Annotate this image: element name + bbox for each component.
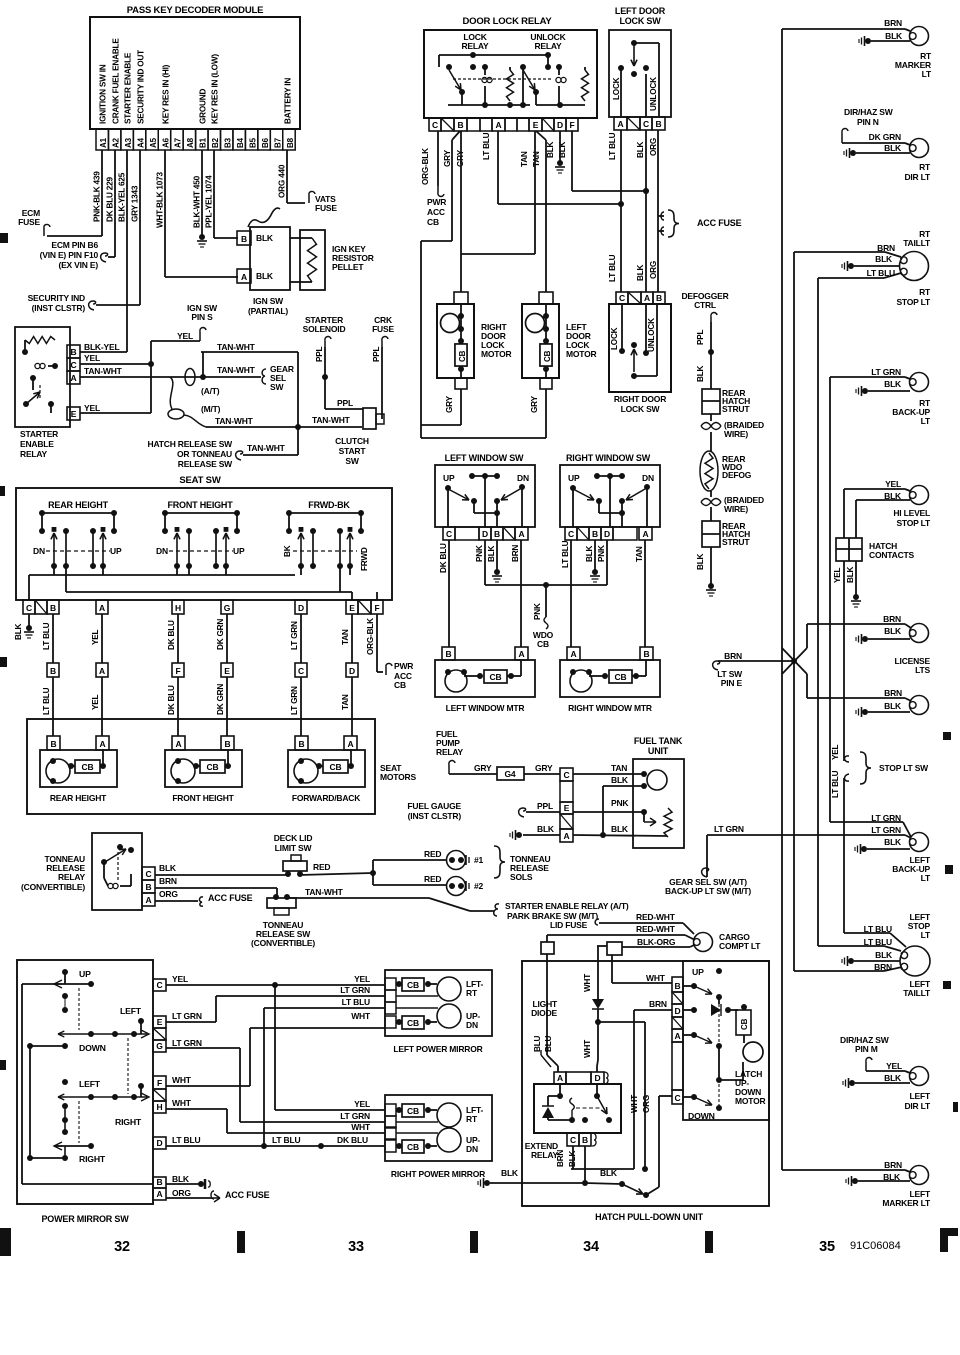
svg-text:B: B bbox=[494, 529, 500, 539]
svg-text:CB: CB bbox=[427, 217, 439, 227]
svg-text:BRN: BRN bbox=[556, 1150, 565, 1167]
svg-text:WHT: WHT bbox=[583, 1040, 592, 1058]
svg-text:LT GRN: LT GRN bbox=[290, 621, 299, 650]
svg-text:BLK: BLK bbox=[885, 31, 903, 41]
svg-text:E: E bbox=[349, 603, 355, 613]
svg-text:BLK: BLK bbox=[546, 141, 555, 158]
svg-text:BLK: BLK bbox=[884, 1073, 902, 1083]
svg-text:DK BLU: DK BLU bbox=[439, 543, 448, 573]
svg-text:RED-WHT: RED-WHT bbox=[636, 924, 676, 934]
svg-text:YEL: YEL bbox=[354, 1099, 370, 1109]
svg-text:F: F bbox=[375, 603, 380, 613]
svg-text:PIN E: PIN E bbox=[721, 678, 743, 688]
svg-text:CB: CB bbox=[458, 350, 467, 362]
svg-text:IGN SW: IGN SW bbox=[253, 296, 284, 306]
svg-text:91C06084: 91C06084 bbox=[850, 1240, 901, 1252]
svg-text:LT BLU: LT BLU bbox=[561, 540, 570, 568]
svg-text:DN: DN bbox=[33, 546, 45, 556]
svg-text:C: C bbox=[298, 666, 304, 676]
svg-text:B: B bbox=[299, 739, 305, 749]
svg-text:YEL: YEL bbox=[886, 1061, 902, 1071]
svg-text:LT: LT bbox=[921, 873, 931, 883]
svg-text:YEL: YEL bbox=[885, 479, 901, 489]
svg-text:SW: SW bbox=[345, 456, 359, 466]
svg-text:BRN: BRN bbox=[724, 651, 742, 661]
svg-text:B: B bbox=[592, 529, 598, 539]
svg-text:YEL: YEL bbox=[354, 974, 370, 984]
svg-text:WIRE): WIRE) bbox=[724, 429, 748, 439]
svg-text:COMPT LT: COMPT LT bbox=[719, 941, 761, 951]
svg-text:ACC FUSE: ACC FUSE bbox=[225, 1190, 270, 1200]
svg-text:STARTER ENABLE RELAY (A/T): STARTER ENABLE RELAY (A/T) bbox=[505, 901, 629, 911]
svg-text:B5: B5 bbox=[248, 137, 257, 148]
svg-text:BLK: BLK bbox=[875, 950, 893, 960]
svg-text:C: C bbox=[619, 293, 625, 303]
svg-text:STRUT: STRUT bbox=[722, 404, 750, 414]
svg-text:E: E bbox=[71, 409, 77, 419]
svg-text:LOCK: LOCK bbox=[612, 77, 621, 100]
svg-text:LT GRN: LT GRN bbox=[871, 813, 901, 823]
svg-text:BLK: BLK bbox=[256, 233, 274, 243]
svg-text:BLK: BLK bbox=[585, 545, 594, 562]
svg-text:SOLS: SOLS bbox=[510, 872, 533, 882]
svg-text:BLK: BLK bbox=[256, 271, 274, 281]
svg-text:UNIT: UNIT bbox=[648, 746, 669, 756]
svg-text:PELLET: PELLET bbox=[332, 262, 364, 272]
svg-text:C: C bbox=[675, 1093, 681, 1103]
svg-text:DIR LT: DIR LT bbox=[904, 172, 931, 182]
svg-text:RT: RT bbox=[919, 287, 931, 297]
svg-text:GRY: GRY bbox=[445, 395, 454, 413]
svg-text:B: B bbox=[51, 739, 57, 749]
svg-text:A: A bbox=[100, 739, 106, 749]
svg-text:WHT: WHT bbox=[351, 1011, 371, 1021]
svg-text:PPL: PPL bbox=[537, 801, 553, 811]
svg-text:BLK: BLK bbox=[537, 824, 555, 834]
svg-text:SOLENOID: SOLENOID bbox=[303, 324, 346, 334]
svg-text:LT GRN: LT GRN bbox=[871, 825, 901, 835]
svg-text:A6: A6 bbox=[161, 137, 170, 148]
svg-text:SECURITY IND: SECURITY IND bbox=[28, 293, 85, 303]
svg-text:ORG: ORG bbox=[642, 1095, 651, 1113]
svg-text:FRONT HEIGHT: FRONT HEIGHT bbox=[172, 793, 234, 803]
svg-text:(INST CLSTR): (INST CLSTR) bbox=[408, 811, 462, 821]
svg-text:B: B bbox=[675, 981, 681, 991]
svg-text:C: C bbox=[157, 980, 163, 990]
svg-text:CB: CB bbox=[207, 762, 219, 772]
svg-text:STOP LT: STOP LT bbox=[896, 297, 931, 307]
svg-text:MOTOR: MOTOR bbox=[566, 349, 597, 359]
svg-text:LOCK SW: LOCK SW bbox=[621, 404, 661, 414]
svg-text:WHT: WHT bbox=[351, 1122, 371, 1132]
svg-text:E: E bbox=[224, 666, 230, 676]
svg-text:B8: B8 bbox=[286, 137, 295, 148]
svg-text:PNK: PNK bbox=[533, 603, 542, 620]
svg-text:TAN: TAN bbox=[635, 546, 644, 562]
svg-text:RELAY: RELAY bbox=[531, 1150, 559, 1160]
svg-text:(CONVERTIBLE): (CONVERTIBLE) bbox=[21, 882, 85, 892]
svg-text:DIODE: DIODE bbox=[531, 1008, 557, 1018]
svg-text:ORG-BLK: ORG-BLK bbox=[366, 618, 375, 655]
svg-text:B7: B7 bbox=[273, 137, 282, 148]
svg-text:C: C bbox=[568, 529, 574, 539]
svg-text:CONTACTS: CONTACTS bbox=[869, 550, 915, 560]
svg-text:A: A bbox=[348, 739, 354, 749]
svg-text:TAN-WHT: TAN-WHT bbox=[215, 416, 254, 426]
svg-text:ORG: ORG bbox=[649, 261, 658, 279]
svg-text:DN: DN bbox=[642, 473, 654, 483]
svg-text:LT BLU: LT BLU bbox=[831, 770, 840, 798]
svg-text:RELEASE SW: RELEASE SW bbox=[178, 459, 233, 469]
svg-text:DK BLU: DK BLU bbox=[167, 620, 176, 650]
svg-text:DN: DN bbox=[466, 1144, 478, 1154]
svg-text:32: 32 bbox=[114, 1239, 130, 1255]
svg-text:LTS: LTS bbox=[915, 665, 930, 675]
svg-text:B: B bbox=[241, 234, 247, 244]
svg-text:YEL: YEL bbox=[833, 567, 842, 583]
svg-text:KEY RES IN (HI): KEY RES IN (HI) bbox=[162, 64, 171, 124]
svg-text:WHT: WHT bbox=[583, 974, 592, 992]
svg-text:CB: CB bbox=[615, 672, 627, 682]
svg-text:ORG: ORG bbox=[172, 1188, 191, 1198]
svg-text:B: B bbox=[582, 1135, 588, 1145]
svg-text:A: A bbox=[241, 272, 247, 282]
svg-text:RED: RED bbox=[424, 849, 441, 859]
svg-text:RT: RT bbox=[466, 1114, 478, 1124]
svg-text:A1: A1 bbox=[99, 137, 108, 148]
svg-text:BLK: BLK bbox=[600, 1168, 618, 1178]
svg-text:BLK: BLK bbox=[611, 824, 629, 834]
svg-text:LT: LT bbox=[921, 416, 931, 426]
svg-text:B: B bbox=[446, 649, 452, 659]
svg-text:STOP LT: STOP LT bbox=[896, 518, 931, 528]
svg-text:PPL: PPL bbox=[372, 346, 381, 362]
svg-text:LT BLU: LT BLU bbox=[864, 924, 892, 934]
svg-text:CB: CB bbox=[407, 1106, 419, 1116]
svg-text:STARTER: STARTER bbox=[20, 429, 58, 439]
svg-text:BLK: BLK bbox=[636, 141, 645, 158]
svg-text:(M/T): (M/T) bbox=[201, 404, 221, 414]
svg-text:B1: B1 bbox=[199, 137, 208, 148]
svg-text:F: F bbox=[570, 120, 575, 130]
svg-text:BLK: BLK bbox=[884, 379, 902, 389]
svg-text:SW: SW bbox=[270, 382, 284, 392]
svg-text:POWER MIRROR SW: POWER MIRROR SW bbox=[42, 1214, 130, 1224]
svg-text:BLK: BLK bbox=[884, 837, 902, 847]
svg-text:RELAY: RELAY bbox=[461, 41, 489, 51]
svg-text:DECK LID: DECK LID bbox=[274, 833, 313, 843]
svg-text:B: B bbox=[50, 603, 56, 613]
svg-text:BLK-YEL 625: BLK-YEL 625 bbox=[118, 172, 127, 222]
svg-text:CTRL: CTRL bbox=[694, 300, 716, 310]
svg-text:RIGHT POWER MIRROR: RIGHT POWER MIRROR bbox=[391, 1169, 485, 1179]
svg-text:UP: UP bbox=[692, 967, 704, 977]
svg-text:BK: BK bbox=[283, 545, 292, 557]
svg-text:GRY 1343: GRY 1343 bbox=[131, 185, 140, 222]
svg-text:B: B bbox=[50, 666, 56, 676]
svg-text:A: A bbox=[519, 649, 525, 659]
svg-text:GRY: GRY bbox=[530, 395, 539, 413]
svg-text:A: A bbox=[644, 293, 650, 303]
svg-text:ENABLE: ENABLE bbox=[20, 439, 54, 449]
svg-text:33: 33 bbox=[348, 1239, 364, 1255]
svg-text:LT GRN: LT GRN bbox=[172, 1011, 202, 1021]
svg-text:STOP LT SW: STOP LT SW bbox=[879, 763, 929, 773]
svg-text:C: C bbox=[26, 603, 32, 613]
svg-text:C: C bbox=[71, 360, 77, 370]
svg-text:FUSE: FUSE bbox=[315, 203, 337, 213]
svg-text:LEFT: LEFT bbox=[910, 1091, 931, 1101]
svg-text:PPL: PPL bbox=[696, 329, 705, 345]
svg-text:DK GRN: DK GRN bbox=[216, 619, 225, 650]
svg-text:MOTOR: MOTOR bbox=[735, 1096, 766, 1106]
svg-text:H: H bbox=[175, 603, 181, 613]
svg-text:(VIN E) PIN F10: (VIN E) PIN F10 bbox=[40, 250, 99, 260]
svg-text:E: E bbox=[157, 1017, 163, 1027]
svg-text:H: H bbox=[157, 1102, 163, 1112]
svg-text:B: B bbox=[656, 119, 662, 129]
svg-text:RED-WHT: RED-WHT bbox=[636, 912, 676, 922]
svg-text:#1: #1 bbox=[474, 855, 484, 865]
svg-text:CB: CB bbox=[394, 680, 406, 690]
svg-text:CB: CB bbox=[407, 980, 419, 990]
svg-text:C: C bbox=[432, 120, 438, 130]
svg-text:A: A bbox=[519, 529, 525, 539]
svg-text:ORG-BLK: ORG-BLK bbox=[421, 148, 430, 185]
svg-text:UP: UP bbox=[443, 473, 455, 483]
svg-text:TAN: TAN bbox=[341, 694, 350, 710]
svg-text:CB: CB bbox=[490, 672, 502, 682]
svg-text:WIRE): WIRE) bbox=[724, 504, 748, 514]
svg-text:BLK: BLK bbox=[846, 566, 855, 583]
svg-text:LT BLU: LT BLU bbox=[608, 132, 617, 160]
svg-text:UP: UP bbox=[79, 969, 91, 979]
svg-text:LT: LT bbox=[922, 69, 932, 79]
svg-text:B: B bbox=[71, 347, 77, 357]
svg-text:WHT: WHT bbox=[630, 1095, 639, 1113]
svg-text:LOCK: LOCK bbox=[610, 327, 619, 350]
svg-text:SECURITY IND OUT: SECURITY IND OUT bbox=[137, 50, 146, 124]
svg-text:TAN-WHT: TAN-WHT bbox=[305, 887, 344, 897]
svg-text:RELAY: RELAY bbox=[20, 449, 48, 459]
svg-text:D: D bbox=[349, 666, 355, 676]
svg-text:BRN: BRN bbox=[883, 614, 901, 624]
svg-text:TAN-WHT: TAN-WHT bbox=[312, 415, 351, 425]
svg-text:RELAY: RELAY bbox=[58, 872, 86, 882]
svg-text:LEFT: LEFT bbox=[79, 1079, 101, 1089]
svg-text:A: A bbox=[99, 603, 105, 613]
svg-text:BRN: BRN bbox=[159, 876, 177, 886]
svg-text:RIGHT WINDOW SW: RIGHT WINDOW SW bbox=[566, 453, 651, 463]
svg-text:BLK: BLK bbox=[884, 143, 902, 153]
svg-text:LEFT POWER MIRROR: LEFT POWER MIRROR bbox=[393, 1044, 482, 1054]
svg-text:(PARTIAL): (PARTIAL) bbox=[248, 306, 288, 316]
svg-text:A: A bbox=[71, 373, 77, 383]
svg-text:PPL: PPL bbox=[315, 346, 324, 362]
svg-text:LT GRN: LT GRN bbox=[340, 1111, 370, 1121]
svg-text:YEL: YEL bbox=[84, 403, 100, 413]
svg-text:B2: B2 bbox=[211, 137, 220, 148]
svg-text:D: D bbox=[557, 120, 563, 130]
svg-text:D: D bbox=[604, 529, 610, 539]
svg-text:BLU: BLU bbox=[533, 1035, 542, 1052]
svg-text:B: B bbox=[157, 1177, 163, 1187]
svg-text:BLK: BLK bbox=[611, 775, 629, 785]
svg-text:BRN: BRN bbox=[649, 999, 667, 1009]
svg-text:RT: RT bbox=[466, 988, 478, 998]
svg-text:LT BLU: LT BLU bbox=[482, 132, 491, 160]
svg-text:PIN S: PIN S bbox=[191, 312, 213, 322]
svg-text:TAN-WHT: TAN-WHT bbox=[217, 342, 256, 352]
svg-text:FUEL GAUGE: FUEL GAUGE bbox=[407, 801, 461, 811]
svg-text:PNK: PNK bbox=[611, 798, 629, 808]
svg-text:LT BLU: LT BLU bbox=[342, 997, 370, 1007]
svg-text:A: A bbox=[564, 831, 570, 841]
svg-text:BLK-YEL: BLK-YEL bbox=[84, 342, 119, 352]
svg-text:PIN M: PIN M bbox=[855, 1044, 878, 1054]
svg-text:LT BLU: LT BLU bbox=[608, 254, 617, 282]
svg-text:34: 34 bbox=[583, 1239, 599, 1255]
svg-text:E: E bbox=[533, 120, 539, 130]
svg-text:LIMIT SW: LIMIT SW bbox=[275, 843, 313, 853]
svg-text:UP: UP bbox=[110, 546, 122, 556]
svg-text:BLK: BLK bbox=[884, 701, 902, 711]
svg-text:LT GRN: LT GRN bbox=[340, 985, 370, 995]
svg-text:CB: CB bbox=[543, 350, 552, 362]
svg-text:BLK: BLK bbox=[172, 1174, 190, 1184]
svg-text:B: B bbox=[225, 739, 231, 749]
svg-text:YEL: YEL bbox=[91, 629, 100, 645]
svg-text:BLK: BLK bbox=[696, 365, 705, 382]
svg-text:LT BLU: LT BLU bbox=[42, 622, 51, 650]
svg-text:WHT: WHT bbox=[646, 973, 666, 983]
svg-text:DN: DN bbox=[466, 1020, 478, 1030]
svg-text:(INST CLSTR): (INST CLSTR) bbox=[32, 303, 86, 313]
svg-text:LT GRN: LT GRN bbox=[290, 686, 299, 715]
svg-text:HATCH RELEASE SW: HATCH RELEASE SW bbox=[148, 439, 234, 449]
svg-text:FRWD-BK: FRWD-BK bbox=[308, 500, 350, 510]
svg-text:#2: #2 bbox=[474, 881, 484, 891]
svg-text:DK BLU: DK BLU bbox=[167, 685, 176, 715]
svg-text:B4: B4 bbox=[236, 137, 245, 148]
svg-text:ORG: ORG bbox=[159, 889, 178, 899]
svg-text:RIGHT: RIGHT bbox=[79, 1154, 106, 1164]
svg-text:TAN-WHT: TAN-WHT bbox=[247, 443, 286, 453]
svg-text:DOWN: DOWN bbox=[79, 1043, 106, 1053]
svg-text:ACC FUSE: ACC FUSE bbox=[208, 893, 253, 903]
svg-text:LT GRN: LT GRN bbox=[172, 1038, 202, 1048]
svg-text:MOTOR: MOTOR bbox=[481, 349, 512, 359]
svg-text:B: B bbox=[146, 882, 152, 892]
svg-text:BLK: BLK bbox=[696, 553, 705, 570]
svg-text:BLK-WHT 450: BLK-WHT 450 bbox=[193, 175, 202, 228]
svg-text:C: C bbox=[643, 119, 649, 129]
svg-text:PPL: PPL bbox=[337, 398, 353, 408]
svg-text:FRONT HEIGHT: FRONT HEIGHT bbox=[167, 500, 233, 510]
svg-text:BRN: BRN bbox=[884, 18, 902, 28]
svg-text:YEL: YEL bbox=[91, 694, 100, 710]
svg-text:CB: CB bbox=[330, 762, 342, 772]
svg-text:TAN: TAN bbox=[341, 629, 350, 645]
svg-text:TAN-WHT: TAN-WHT bbox=[84, 366, 123, 376]
svg-text:UNLOCK: UNLOCK bbox=[647, 318, 656, 352]
svg-text:DOOR LOCK RELAY: DOOR LOCK RELAY bbox=[462, 16, 552, 27]
svg-text:SEAT SW: SEAT SW bbox=[179, 475, 220, 486]
svg-text:LT GRN: LT GRN bbox=[871, 367, 901, 377]
svg-text:HATCH PULL-DOWN UNIT: HATCH PULL-DOWN UNIT bbox=[595, 1212, 704, 1222]
svg-text:D: D bbox=[595, 1073, 601, 1083]
svg-text:BRN: BRN bbox=[884, 688, 902, 698]
svg-text:A: A bbox=[496, 120, 502, 130]
svg-text:TAN: TAN bbox=[532, 151, 541, 167]
svg-text:BLK-ORG: BLK-ORG bbox=[637, 937, 676, 947]
svg-text:MARKER LT: MARKER LT bbox=[882, 1198, 931, 1208]
svg-text:BLK: BLK bbox=[875, 254, 893, 264]
svg-text:LT BLU: LT BLU bbox=[867, 268, 895, 278]
svg-text:A4: A4 bbox=[136, 137, 145, 148]
svg-text:CLUTCH: CLUTCH bbox=[335, 436, 369, 446]
svg-text:RIGHT WINDOW MTR: RIGHT WINDOW MTR bbox=[568, 703, 652, 713]
svg-text:WHT: WHT bbox=[172, 1098, 192, 1108]
svg-text:B: B bbox=[458, 120, 464, 130]
svg-text:B6: B6 bbox=[261, 137, 270, 148]
svg-text:A: A bbox=[99, 666, 105, 676]
svg-text:A: A bbox=[643, 529, 649, 539]
svg-text:RELAY: RELAY bbox=[534, 41, 562, 51]
svg-text:BLK: BLK bbox=[14, 623, 23, 640]
svg-text:RIGHT DOOR: RIGHT DOOR bbox=[614, 394, 666, 404]
svg-text:LEFT: LEFT bbox=[120, 1006, 142, 1016]
svg-text:GRY: GRY bbox=[474, 763, 492, 773]
svg-text:BACK-UP LT SW (M/T): BACK-UP LT SW (M/T) bbox=[665, 886, 751, 896]
svg-text:C: C bbox=[564, 770, 570, 780]
svg-text:DEFOG: DEFOG bbox=[722, 470, 752, 480]
svg-text:RIGHT: RIGHT bbox=[115, 1117, 142, 1127]
svg-text:REAR HEIGHT: REAR HEIGHT bbox=[48, 500, 109, 510]
svg-text:START: START bbox=[339, 446, 367, 456]
svg-text:BRN: BRN bbox=[511, 545, 520, 562]
svg-text:RED: RED bbox=[424, 874, 441, 884]
svg-text:TAN: TAN bbox=[520, 151, 529, 167]
svg-text:A: A bbox=[176, 739, 182, 749]
svg-text:C: C bbox=[570, 1135, 576, 1145]
svg-text:BLK: BLK bbox=[884, 626, 902, 636]
svg-text:FORWARD/BACK: FORWARD/BACK bbox=[292, 793, 361, 803]
svg-text:GRY: GRY bbox=[443, 149, 452, 167]
svg-text:(CONVERTIBLE): (CONVERTIBLE) bbox=[251, 938, 315, 948]
svg-text:LT BLU: LT BLU bbox=[272, 1135, 300, 1145]
svg-text:BLU: BLU bbox=[544, 1035, 553, 1052]
svg-text:UNLOCK: UNLOCK bbox=[649, 77, 658, 111]
svg-text:LID FUSE: LID FUSE bbox=[550, 920, 588, 930]
svg-text:FRWD: FRWD bbox=[360, 547, 369, 571]
svg-text:HI LEVEL: HI LEVEL bbox=[893, 508, 930, 518]
svg-text:PNK: PNK bbox=[597, 545, 606, 562]
svg-text:FUEL TANK: FUEL TANK bbox=[634, 736, 683, 746]
svg-text:BRN: BRN bbox=[884, 1160, 902, 1170]
svg-text:TAILLT: TAILLT bbox=[903, 988, 931, 998]
svg-text:FUSE: FUSE bbox=[372, 324, 394, 334]
svg-text:ACC FUSE: ACC FUSE bbox=[697, 218, 742, 228]
svg-text:PWR: PWR bbox=[394, 661, 413, 671]
svg-text:DN: DN bbox=[517, 473, 529, 483]
svg-text:D: D bbox=[157, 1138, 163, 1148]
svg-text:F: F bbox=[157, 1078, 162, 1088]
svg-text:DK BLU: DK BLU bbox=[337, 1135, 368, 1145]
svg-text:LT: LT bbox=[921, 930, 931, 940]
svg-text:E: E bbox=[564, 803, 570, 813]
svg-text:A7: A7 bbox=[174, 137, 183, 148]
